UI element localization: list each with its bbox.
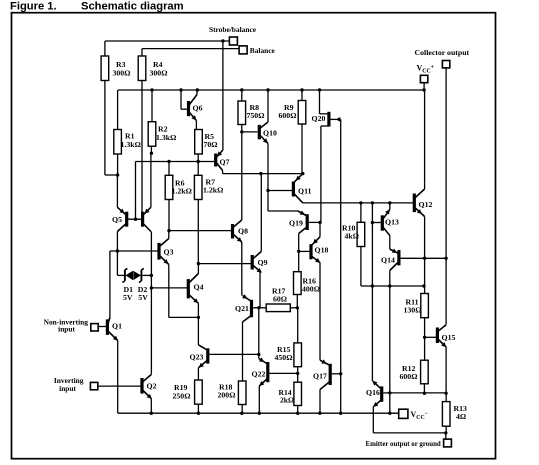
node Emitter output pad bbox=[444, 439, 452, 447]
wire Q7 base line bbox=[136, 160, 216, 163]
svg-text:Figure 1.: Figure 1. bbox=[10, 1, 57, 13]
svg-text:Q3: Q3 bbox=[164, 248, 174, 257]
svg-text:Q5: Q5 bbox=[112, 215, 122, 224]
svg-text:Q1: Q1 bbox=[112, 322, 122, 331]
wire balance rail bbox=[142, 48, 239, 50]
svg-text:1.3kΩ: 1.3kΩ bbox=[156, 133, 176, 142]
svg-text:400Ω: 400Ω bbox=[302, 285, 320, 294]
transistor Q6 bbox=[181, 90, 203, 130]
resistor R7 bbox=[194, 162, 223, 264]
resistor R8 bbox=[238, 90, 264, 134]
svg-text:Schematic diagram: Schematic diagram bbox=[81, 1, 184, 13]
svg-text:Q19: Q19 bbox=[289, 219, 303, 228]
svg-text:Q8: Q8 bbox=[238, 227, 248, 236]
wire strobe top rail bbox=[105, 39, 230, 42]
svg-text:Q4: Q4 bbox=[194, 283, 204, 292]
svg-text:250Ω: 250Ω bbox=[173, 392, 191, 401]
svg-text:300Ω: 300Ω bbox=[150, 69, 168, 78]
wire strobe vertical to Q7 emitter bbox=[222, 41, 224, 149]
svg-text:Q22: Q22 bbox=[252, 370, 266, 379]
resistor R10 bbox=[342, 203, 426, 288]
resistor R4 bbox=[138, 49, 167, 212]
svg-text:4Ω: 4Ω bbox=[456, 412, 466, 421]
node Vcc- pad bbox=[399, 409, 408, 418]
svg-text:2kΩ: 2kΩ bbox=[280, 396, 294, 405]
transistor Q17 bbox=[313, 359, 342, 413]
svg-text:300Ω: 300Ω bbox=[113, 69, 131, 78]
wire Q20 base down bbox=[340, 119, 342, 413]
svg-text:Q15: Q15 bbox=[442, 333, 456, 342]
transistor Q19 bbox=[289, 211, 307, 254]
resistor R1 bbox=[114, 90, 141, 175]
resistor R14 bbox=[279, 373, 302, 413]
svg-text:60Ω: 60Ω bbox=[273, 295, 287, 304]
wire Vcc+ lead bbox=[422, 83, 425, 92]
transistor Q8 bbox=[233, 220, 249, 296]
svg-text:5V: 5V bbox=[138, 293, 148, 302]
transistor Q12 bbox=[414, 184, 432, 259]
svg-text:Balance: Balance bbox=[250, 46, 276, 55]
transistor Q16 bbox=[366, 381, 446, 433]
svg-text:450Ω: 450Ω bbox=[275, 353, 293, 362]
transistor Q15 bbox=[437, 325, 455, 395]
resistor R5 bbox=[195, 130, 218, 162]
transistor Q7 bbox=[216, 149, 230, 174]
transistor Q11 bbox=[293, 174, 311, 203]
resistor R6 bbox=[165, 162, 192, 233]
transistor Q4 bbox=[150, 262, 204, 345]
svg-text:200Ω: 200Ω bbox=[218, 391, 236, 400]
wire Vcc to Q12 emitter bbox=[424, 90, 426, 184]
svg-text:Q20: Q20 bbox=[312, 114, 326, 123]
svg-text:Q13: Q13 bbox=[385, 218, 399, 227]
wire Q8 base line bbox=[169, 230, 231, 232]
wire R2 to Q5b emitter bbox=[150, 153, 152, 207]
diode D2 bbox=[133, 268, 153, 302]
wire Q7 collector rail bbox=[223, 172, 305, 175]
wire base line to Q5 bases bbox=[135, 162, 137, 220]
transistor Q18 bbox=[299, 222, 329, 360]
wire collector output vertical bbox=[445, 68, 447, 325]
svg-text:1.2kΩ: 1.2kΩ bbox=[203, 186, 223, 195]
svg-text:Q2: Q2 bbox=[147, 382, 157, 391]
label Collector output bbox=[415, 48, 470, 57]
transistor Q23 bbox=[190, 345, 208, 380]
diode D1 bbox=[117, 251, 133, 302]
resistor R13 bbox=[442, 393, 467, 433]
svg-text:Emitter output or ground: Emitter output or ground bbox=[366, 441, 441, 448]
svg-text:Q12: Q12 bbox=[419, 200, 433, 209]
wire Q13 base vertical bbox=[371, 203, 374, 381]
svg-text:4kΩ: 4kΩ bbox=[345, 232, 359, 241]
svg-text:Q21: Q21 bbox=[235, 304, 249, 313]
svg-text:Q17: Q17 bbox=[313, 372, 327, 381]
svg-text:1.2kΩ: 1.2kΩ bbox=[172, 187, 192, 196]
svg-text:Strobe/balance: Strobe/balance bbox=[209, 25, 257, 34]
svg-text:Q16: Q16 bbox=[366, 388, 380, 397]
svg-text:Q10: Q10 bbox=[263, 129, 277, 138]
transistor Q13 bbox=[372, 203, 399, 249]
wire Q9 base line bbox=[198, 263, 251, 265]
resistor R18 bbox=[218, 381, 247, 413]
svg-text:input: input bbox=[59, 384, 76, 393]
svg-text:Q14: Q14 bbox=[381, 256, 395, 265]
svg-text:Q6: Q6 bbox=[193, 104, 203, 113]
transistor Q22 bbox=[252, 357, 298, 413]
svg-text:Q23: Q23 bbox=[190, 353, 204, 362]
resistor R17 bbox=[259, 287, 299, 312]
node Collector output pad bbox=[442, 61, 449, 68]
wire Q11 base line bbox=[266, 189, 292, 192]
wire Q11 collector rail bbox=[303, 201, 415, 204]
svg-text:Q7: Q7 bbox=[220, 158, 230, 167]
label Strobe/balance bbox=[209, 25, 257, 34]
transistor Q20 bbox=[312, 90, 341, 222]
svg-text:Q18: Q18 bbox=[315, 246, 329, 255]
wire Q14 base line bbox=[401, 257, 448, 260]
wire R8 to Q8 emitter bbox=[241, 132, 243, 220]
resistor R2 bbox=[148, 90, 176, 155]
node Vcc+ pad bbox=[420, 75, 427, 82]
transistor Q9 bbox=[252, 174, 267, 308]
svg-text:input: input bbox=[58, 325, 75, 334]
svg-text:Q11: Q11 bbox=[298, 187, 312, 196]
node Inverting input pad bbox=[54, 376, 98, 393]
resistor R19 bbox=[173, 380, 203, 413]
resistor R11 bbox=[404, 294, 429, 339]
resistor R9 bbox=[279, 90, 306, 174]
label Emitter output or ground bbox=[366, 441, 441, 448]
title text bbox=[10, 1, 184, 13]
svg-text:70Ω: 70Ω bbox=[204, 140, 218, 149]
node Non-inverting input pad bbox=[44, 317, 99, 333]
transistor Q5 bbox=[112, 175, 151, 373]
wire Q23 base line bbox=[209, 353, 260, 356]
resistor R12 bbox=[400, 360, 429, 395]
wire Q12 collector to R11 bbox=[424, 258, 426, 293]
transistor Q3 bbox=[110, 231, 200, 319]
transistor Q2 bbox=[98, 373, 157, 413]
resistor R15 bbox=[275, 308, 302, 375]
wire Q19 base line bbox=[309, 221, 322, 224]
label Vcc+ bbox=[417, 64, 435, 75]
svg-text:130Ω: 130Ω bbox=[404, 306, 422, 315]
node Balance pad bbox=[239, 46, 247, 54]
wire Q10 collector to Q19 emitter bbox=[268, 191, 298, 212]
wire Q9 emitter down bbox=[257, 306, 260, 358]
node Strobe/balance pad bbox=[229, 37, 237, 45]
transistor Q14 bbox=[381, 249, 399, 414]
wire R11 to R12 bbox=[424, 337, 426, 360]
transistor Q21 bbox=[235, 294, 259, 381]
transistor Q10 bbox=[242, 90, 277, 191]
wire Q15 base line bbox=[425, 336, 436, 338]
label Vcc- bbox=[411, 410, 429, 421]
node R3-R1 junction bbox=[105, 173, 119, 176]
transistor Q1 bbox=[98, 251, 122, 413]
svg-text:600Ω: 600Ω bbox=[279, 111, 297, 120]
wire bottom rail bbox=[118, 412, 399, 415]
svg-text:750Ω: 750Ω bbox=[247, 111, 265, 120]
resistor R3 bbox=[101, 41, 130, 175]
resistor R16 bbox=[294, 272, 320, 308]
wire top rail bbox=[118, 88, 424, 91]
svg-text:Q9: Q9 bbox=[258, 258, 268, 267]
wire R16 top lead bbox=[298, 251, 300, 271]
svg-text:5V: 5V bbox=[123, 293, 133, 302]
label Balance bbox=[250, 46, 276, 55]
wire emitter output line bbox=[373, 431, 447, 439]
svg-text:Collector output: Collector output bbox=[415, 48, 470, 57]
svg-text:1.3kΩ: 1.3kΩ bbox=[121, 140, 141, 149]
svg-text:600Ω: 600Ω bbox=[400, 372, 418, 381]
